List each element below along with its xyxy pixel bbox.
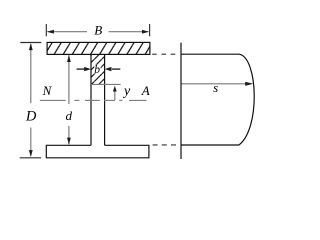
svg-text:B: B: [94, 22, 102, 37]
svg-text:b: b: [94, 64, 100, 76]
svg-text:s: s: [213, 80, 218, 95]
svg-text:A: A: [141, 83, 150, 98]
svg-text:D: D: [25, 109, 37, 125]
svg-text:d: d: [66, 108, 73, 123]
svg-text:N: N: [42, 83, 53, 98]
svg-text:y: y: [122, 84, 131, 99]
